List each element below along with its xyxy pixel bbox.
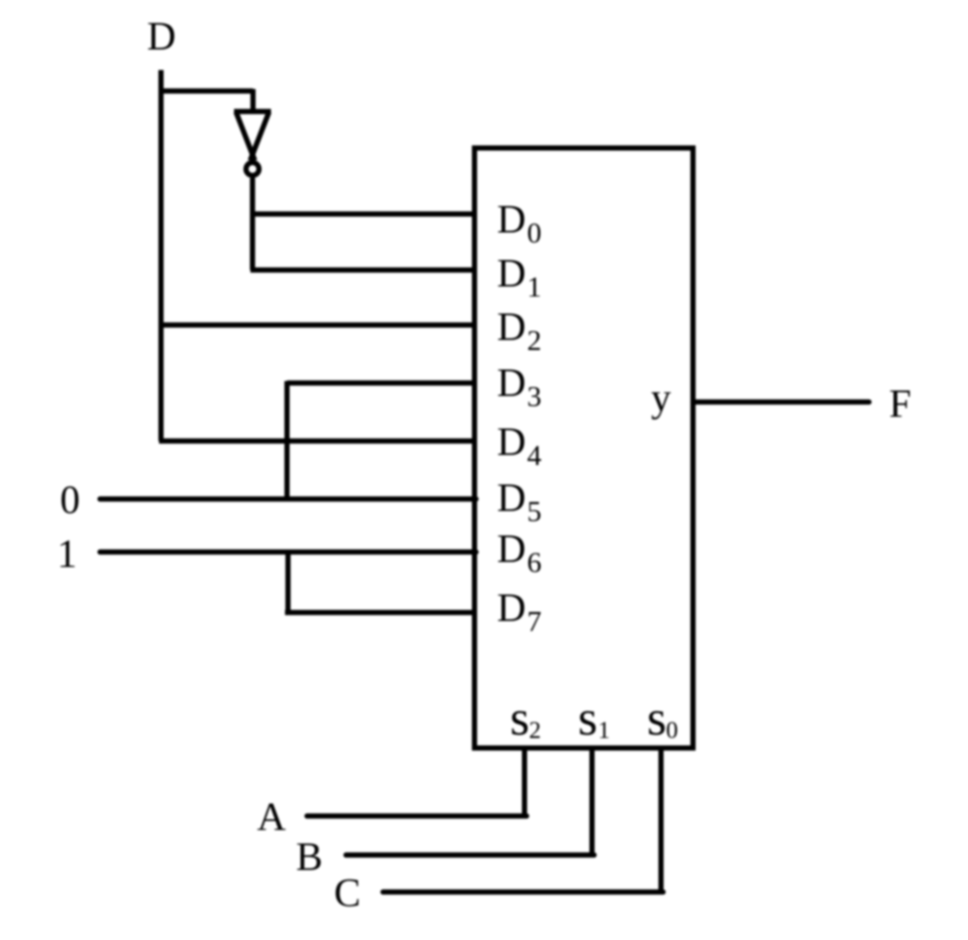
svg-text:y: y bbox=[651, 375, 671, 420]
svg-text:1: 1 bbox=[598, 718, 610, 744]
svg-text:6: 6 bbox=[527, 547, 542, 579]
svg-text:2: 2 bbox=[529, 718, 541, 744]
svg-text:0: 0 bbox=[527, 218, 542, 250]
svg-text:D: D bbox=[497, 360, 526, 405]
svg-text:7: 7 bbox=[527, 606, 542, 638]
svg-text:B: B bbox=[296, 834, 323, 879]
svg-text:0: 0 bbox=[60, 477, 80, 522]
svg-text:D: D bbox=[147, 14, 176, 59]
svg-text:s: s bbox=[510, 690, 529, 746]
svg-text:D: D bbox=[497, 475, 526, 520]
svg-text:1: 1 bbox=[527, 272, 542, 304]
svg-text:5: 5 bbox=[527, 496, 542, 528]
svg-text:D: D bbox=[497, 526, 526, 571]
svg-text:D: D bbox=[497, 585, 526, 630]
svg-text:s: s bbox=[647, 690, 666, 746]
svg-text:D: D bbox=[497, 197, 526, 242]
svg-text:s: s bbox=[578, 690, 597, 746]
svg-text:4: 4 bbox=[527, 440, 542, 472]
svg-text:D: D bbox=[497, 251, 526, 296]
svg-text:0: 0 bbox=[666, 718, 678, 744]
svg-text:1: 1 bbox=[57, 531, 77, 576]
svg-text:D: D bbox=[497, 304, 526, 349]
svg-text:2: 2 bbox=[527, 325, 542, 357]
svg-text:C: C bbox=[334, 870, 361, 915]
svg-text:A: A bbox=[257, 794, 286, 839]
svg-text:F: F bbox=[889, 381, 911, 426]
svg-text:D: D bbox=[497, 419, 526, 464]
svg-text:3: 3 bbox=[527, 381, 542, 413]
